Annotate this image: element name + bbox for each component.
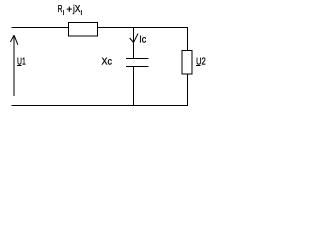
wire right branch lower bbox=[187, 74, 189, 106]
svg-text:jX: jX bbox=[72, 4, 80, 15]
wire capacitor branch upper (Ic) bbox=[133, 28, 135, 59]
arrow Ic head bbox=[130, 38, 134, 43]
underline of U2 bbox=[196, 65, 201, 67]
wire bottom rail bbox=[12, 105, 188, 107]
capacitor Xc top plate bbox=[126, 58, 149, 60]
underline of U1 bbox=[17, 65, 21, 67]
resistor R+jXL (series line impedance box) bbox=[69, 23, 98, 37]
svg-text:l: l bbox=[63, 10, 65, 17]
svg-text:R: R bbox=[58, 4, 63, 15]
wire top rail right segment bbox=[98, 27, 189, 29]
wire right branch upper bbox=[187, 28, 189, 51]
capacitor Xc bottom plate bbox=[126, 66, 149, 68]
svg-text:Ic: Ic bbox=[139, 35, 146, 46]
wire top rail left segment bbox=[12, 27, 69, 29]
arrow U1 head bbox=[10, 35, 14, 42]
svg-text:l: l bbox=[81, 10, 83, 17]
load box U2 bbox=[182, 51, 192, 75]
svg-text:Xc: Xc bbox=[102, 56, 112, 67]
arrow U1 shaft bbox=[13, 35, 15, 96]
svg-text:+: + bbox=[66, 5, 72, 16]
wire capacitor branch lower bbox=[133, 67, 135, 107]
